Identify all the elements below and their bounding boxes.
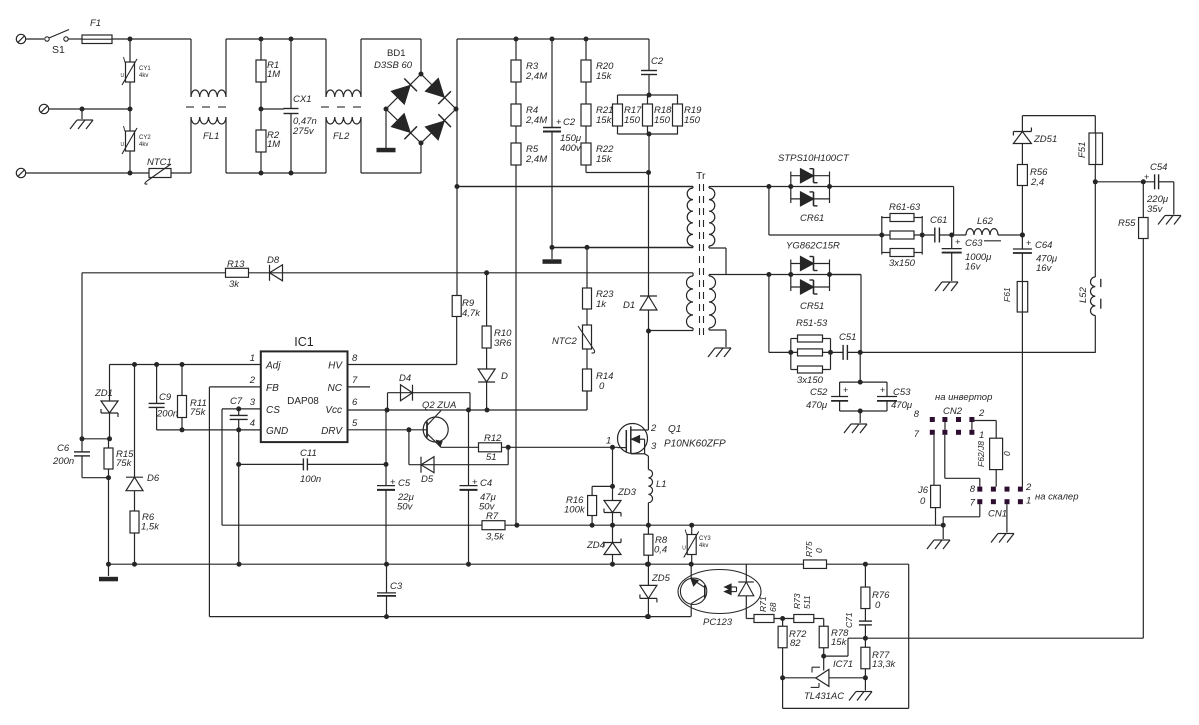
svg-text:Q1: Q1 <box>668 424 681 435</box>
svg-text:150: 150 <box>654 115 671 126</box>
svg-text:R13: R13 <box>227 259 245 270</box>
svg-text:BD1: BD1 <box>387 48 405 59</box>
svg-text:U: U <box>121 142 125 148</box>
svg-text:7: 7 <box>352 375 358 386</box>
svg-text:0: 0 <box>920 496 926 507</box>
svg-text:L52: L52 <box>1078 286 1089 303</box>
svg-text:D8: D8 <box>267 255 280 266</box>
svg-text:13,3k: 13,3k <box>872 659 896 670</box>
svg-text:D6: D6 <box>147 473 160 484</box>
svg-text:+: + <box>1026 238 1031 248</box>
svg-text:15k: 15k <box>596 154 613 165</box>
svg-text:51: 51 <box>486 452 497 463</box>
svg-text:NC: NC <box>328 383 343 394</box>
svg-text:R7: R7 <box>486 511 499 522</box>
svg-text:100k: 100k <box>564 505 586 516</box>
svg-text:7: 7 <box>970 498 976 509</box>
svg-text:IC1: IC1 <box>294 335 314 349</box>
svg-text:2: 2 <box>650 423 657 434</box>
svg-text:P10NK60ZFP: P10NK60ZFP <box>664 439 726 450</box>
svg-text:S1: S1 <box>52 44 65 56</box>
svg-text:1M: 1M <box>267 69 280 80</box>
svg-text:FL2: FL2 <box>333 131 350 142</box>
svg-text:R61-63: R61-63 <box>889 202 921 213</box>
svg-text:на скалер: на скалер <box>1035 492 1079 503</box>
svg-text:Tr: Tr <box>696 170 706 182</box>
svg-text:ZD4: ZD4 <box>586 540 605 551</box>
svg-text:C6: C6 <box>57 443 70 454</box>
svg-text:15k: 15k <box>831 637 848 648</box>
svg-text:+: + <box>390 477 396 488</box>
svg-text:470μ: 470μ <box>891 400 913 411</box>
svg-text:C2: C2 <box>651 56 664 67</box>
svg-text:C52: C52 <box>810 387 828 398</box>
svg-text:68: 68 <box>768 602 778 612</box>
svg-text:C71: C71 <box>844 612 854 628</box>
svg-text:NTC2: NTC2 <box>552 336 578 347</box>
svg-text:15k: 15k <box>596 115 613 126</box>
svg-text:5: 5 <box>352 418 358 429</box>
svg-text:C61: C61 <box>930 215 947 226</box>
svg-text:ZD3: ZD3 <box>617 487 637 498</box>
svg-text:4: 4 <box>250 418 255 429</box>
svg-text:275v: 275v <box>292 126 315 137</box>
svg-text:D1: D1 <box>623 300 635 311</box>
svg-text:CY2: CY2 <box>139 135 151 141</box>
svg-text:3: 3 <box>651 441 657 452</box>
svg-text:C9: C9 <box>159 392 172 403</box>
svg-text:R55: R55 <box>1118 218 1136 229</box>
svg-text:CN2: CN2 <box>943 406 963 417</box>
svg-text:1: 1 <box>606 436 611 447</box>
svg-text:16v: 16v <box>965 262 982 273</box>
svg-text:Vcc: Vcc <box>325 405 342 416</box>
svg-text:8: 8 <box>352 353 358 364</box>
svg-text:D5: D5 <box>421 474 434 485</box>
svg-text:1k: 1k <box>596 299 607 310</box>
svg-text:C7: C7 <box>230 396 243 407</box>
svg-text:+: + <box>1144 172 1149 182</box>
svg-text:C63: C63 <box>965 238 983 249</box>
svg-text:4kv: 4kv <box>139 73 148 79</box>
svg-text:R75: R75 <box>804 541 814 557</box>
svg-text:R51-53: R51-53 <box>796 318 828 329</box>
svg-text:DAP08: DAP08 <box>287 396 319 407</box>
svg-text:3x150: 3x150 <box>797 375 824 386</box>
svg-text:ZD5: ZD5 <box>651 573 671 584</box>
svg-text:511: 511 <box>802 595 812 609</box>
svg-text:F61: F61 <box>1002 287 1012 302</box>
svg-text:R71: R71 <box>758 596 768 612</box>
svg-text:YG862C15R: YG862C15R <box>786 241 840 252</box>
svg-text:35v: 35v <box>1147 204 1164 215</box>
svg-text:D: D <box>501 371 508 382</box>
svg-text:U: U <box>682 546 686 552</box>
svg-text:+: + <box>472 477 478 488</box>
svg-text:1: 1 <box>1026 496 1031 507</box>
svg-text:3x150: 3x150 <box>889 258 916 269</box>
svg-text:FL1: FL1 <box>203 131 219 142</box>
svg-text:3R6: 3R6 <box>494 338 512 349</box>
svg-text:CN1: CN1 <box>988 509 1007 520</box>
svg-text:J6: J6 <box>917 485 929 496</box>
svg-text:4kv: 4kv <box>139 142 148 148</box>
svg-text:C2: C2 <box>563 117 576 128</box>
svg-text:4,7k: 4,7k <box>462 308 481 319</box>
svg-text:STPS10H100CT: STPS10H100CT <box>778 153 850 164</box>
svg-text:+: + <box>843 385 848 395</box>
svg-text:CY3: CY3 <box>699 536 711 542</box>
svg-text:100n: 100n <box>300 474 321 485</box>
svg-text:1: 1 <box>250 353 255 364</box>
svg-text:400v: 400v <box>560 143 582 154</box>
svg-text:C11: C11 <box>300 448 317 459</box>
svg-text:75k: 75k <box>190 407 207 418</box>
svg-text:Q2 ZUA: Q2 ZUA <box>422 400 456 411</box>
svg-text:PC123: PC123 <box>703 617 733 628</box>
svg-text:CR51: CR51 <box>800 301 824 312</box>
svg-text:2: 2 <box>1025 482 1032 493</box>
svg-text:CX1: CX1 <box>293 94 311 105</box>
svg-text:8: 8 <box>914 409 920 420</box>
svg-text:0: 0 <box>875 600 881 611</box>
svg-text:2: 2 <box>978 408 985 419</box>
svg-text:3: 3 <box>250 397 256 408</box>
svg-text:2,4M: 2,4M <box>525 71 547 82</box>
svg-text:200n: 200n <box>52 456 74 467</box>
svg-text:U: U <box>121 73 125 79</box>
svg-text:50v: 50v <box>397 502 414 513</box>
svg-text:150: 150 <box>624 115 641 126</box>
svg-text:0: 0 <box>1002 451 1012 456</box>
svg-text:L1: L1 <box>656 479 667 490</box>
svg-text:на инвертор: на инвертор <box>935 392 992 403</box>
svg-text:7: 7 <box>914 429 920 440</box>
svg-text:+: + <box>880 385 885 395</box>
svg-text:CY1: CY1 <box>139 66 151 72</box>
svg-text:150: 150 <box>684 115 701 126</box>
svg-text:2: 2 <box>249 375 256 386</box>
svg-text:Adj: Adj <box>265 361 281 372</box>
svg-text:DRV: DRV <box>321 426 343 437</box>
svg-text:FB: FB <box>266 383 279 394</box>
svg-text:2,4: 2,4 <box>1030 177 1044 188</box>
svg-text:200n: 200n <box>156 409 178 420</box>
svg-text:CS: CS <box>266 405 280 416</box>
svg-text:0: 0 <box>814 548 824 553</box>
svg-text:C54: C54 <box>1150 162 1167 173</box>
svg-text:C64: C64 <box>1035 240 1052 251</box>
svg-text:0: 0 <box>599 381 605 392</box>
svg-text:HV: HV <box>328 361 343 372</box>
svg-text:R73: R73 <box>792 593 802 609</box>
svg-text:1,5k: 1,5k <box>141 522 160 533</box>
svg-text:8: 8 <box>970 484 976 495</box>
svg-text:470μ: 470μ <box>806 400 828 411</box>
svg-text:C3: C3 <box>390 581 403 592</box>
svg-text:3,5k: 3,5k <box>486 532 505 543</box>
svg-text:+: + <box>955 237 961 248</box>
svg-text:16v: 16v <box>1036 263 1053 274</box>
svg-text:F51: F51 <box>1077 142 1088 158</box>
svg-text:C4: C4 <box>480 478 492 489</box>
svg-text:F62/J8: F62/J8 <box>976 441 986 467</box>
svg-text:TL431AC: TL431AC <box>804 691 844 702</box>
svg-text:GND: GND <box>266 426 288 437</box>
svg-text:ZD51: ZD51 <box>1033 134 1057 145</box>
svg-text:C51: C51 <box>839 332 856 343</box>
svg-text:3k: 3k <box>229 279 240 290</box>
svg-text:15k: 15k <box>596 71 613 82</box>
svg-text:+: + <box>556 117 562 128</box>
svg-text:D3SB 60: D3SB 60 <box>374 60 413 71</box>
svg-text:R12: R12 <box>484 433 502 444</box>
svg-text:CR61: CR61 <box>800 213 824 224</box>
svg-text:ZD1: ZD1 <box>94 388 113 399</box>
svg-text:IC71: IC71 <box>833 659 853 670</box>
svg-text:2,4M: 2,4M <box>525 154 547 165</box>
svg-text:NTC1: NTC1 <box>147 157 172 168</box>
svg-text:4kv: 4kv <box>699 543 708 549</box>
svg-text:2,4M: 2,4M <box>525 115 547 126</box>
svg-text:L62: L62 <box>977 216 994 227</box>
svg-text:75k: 75k <box>116 458 133 469</box>
svg-text:1M: 1M <box>267 139 280 150</box>
svg-text:C5: C5 <box>398 478 411 489</box>
svg-text:D4: D4 <box>399 373 411 384</box>
svg-text:82: 82 <box>790 638 801 649</box>
svg-text:F1: F1 <box>90 18 101 29</box>
svg-text:1: 1 <box>979 430 984 441</box>
svg-text:0,4: 0,4 <box>654 545 667 556</box>
svg-text:6: 6 <box>352 397 358 408</box>
svg-text:C53: C53 <box>893 387 911 398</box>
